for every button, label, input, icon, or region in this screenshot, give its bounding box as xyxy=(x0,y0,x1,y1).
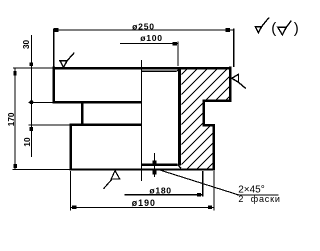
dim ø250 arrows xyxy=(54,28,58,32)
top surface extension line (for 30/170) xyxy=(13,67,54,69)
bore bottom chamfer line xyxy=(142,163,178,166)
step extension line (for 10) xyxy=(29,124,70,126)
neck left edge xyxy=(81,101,84,126)
datum triangle A xyxy=(111,171,119,179)
svg-text:ø180: ø180 xyxy=(149,186,171,196)
leader shelf xyxy=(237,194,279,196)
dim 170 arrows xyxy=(14,71,17,76)
dim ø250: dimension line xyxy=(54,29,234,31)
svg-text:170: 170 xyxy=(7,112,16,126)
flange left edge xyxy=(52,67,55,104)
header roughness symbol 1 xyxy=(255,27,261,33)
bore top chamfer diagonal xyxy=(177,68,181,72)
dim 30/10 dot middle xyxy=(29,100,33,104)
centerline (axis) xyxy=(141,60,143,181)
dim ø190 ext lines xyxy=(70,171,72,211)
dim ø100 arrow xyxy=(173,42,177,46)
bore bottom chamfer diagonal xyxy=(178,165,181,169)
roughness symbol on right edge xyxy=(232,74,239,82)
svg-text:30: 30 xyxy=(22,39,31,49)
hatch section fill xyxy=(77,68,308,169)
flange bottom extension line (for 30/10) xyxy=(29,101,53,103)
bottom cylinder right edge xyxy=(212,124,215,171)
bottom edge thin extension to left xyxy=(13,168,70,170)
bottom edge (thick part) xyxy=(70,168,215,170)
svg-text:10: 10 xyxy=(23,137,32,147)
step face (view half) xyxy=(70,124,142,127)
dim ø180 ext line xyxy=(202,171,204,197)
part outline: top edge xyxy=(53,67,232,70)
svg-text:): ) xyxy=(294,20,299,37)
dim ø190 dimension line xyxy=(71,206,215,208)
dim ø100 ext line xyxy=(177,42,179,67)
leader line 2x45 xyxy=(156,169,239,195)
dim ø250 right ext line xyxy=(233,29,235,67)
neck right edge xyxy=(202,100,205,126)
bore right wall xyxy=(178,67,181,166)
dim ø100: dimension line xyxy=(120,43,178,45)
dim 10 dot bottom xyxy=(30,127,34,131)
svg-text:ø100: ø100 xyxy=(140,33,162,43)
flange bottom edge (view half) xyxy=(53,101,142,104)
roughness symbol on top flange xyxy=(60,61,67,68)
svg-text:2 фаски: 2 фаски xyxy=(238,194,280,204)
dim ø180 arrow xyxy=(197,193,201,197)
bottom cylinder left edge xyxy=(69,124,72,171)
flange right edge (section) xyxy=(229,67,232,102)
header roughness symbol 2 xyxy=(278,27,287,34)
chamfer dim line with arrows xyxy=(154,153,156,177)
datum tail xyxy=(104,179,113,189)
svg-text:ø250: ø250 xyxy=(132,21,155,31)
step face (section half) xyxy=(203,124,215,127)
flange bottom edge (section half) xyxy=(203,100,232,103)
dim ø250 left ext line xyxy=(53,29,55,67)
dim ø190 arrows xyxy=(72,205,76,209)
dim 30/10 shared dimension line xyxy=(30,35,32,157)
bore top chamfer circle line xyxy=(142,70,177,72)
dim 30 dot top xyxy=(30,63,33,66)
dim 170 dimension line xyxy=(14,68,16,169)
svg-text:(: ( xyxy=(271,20,276,37)
dim ø180 dimension line xyxy=(125,194,203,196)
svg-text:ø190: ø190 xyxy=(132,198,156,208)
